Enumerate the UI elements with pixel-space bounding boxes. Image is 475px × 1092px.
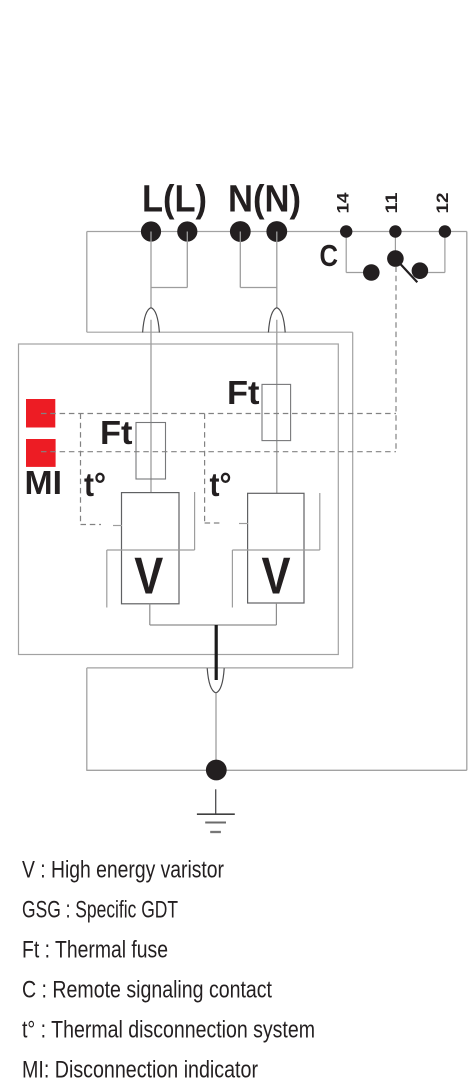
wire contact 14 horizontal <box>346 272 366 274</box>
terminal dot N2 <box>266 221 287 242</box>
svg-text:C: C <box>320 238 339 273</box>
terminal dot N1 <box>230 221 251 242</box>
GSG thick electrode line <box>215 625 218 680</box>
wire V L bottom drop <box>149 604 151 625</box>
svg-text:MI: Disconnection indicator: MI: Disconnection indicator <box>22 1057 258 1084</box>
dashed t-deg box N left edge <box>204 414 206 524</box>
node dot 14 <box>340 225 352 237</box>
svg-text:14: 14 <box>335 192 353 214</box>
enclosure box B top edge <box>87 331 353 333</box>
wire bypass N horizontal <box>232 549 319 551</box>
svg-text:t°: t° <box>210 466 232 503</box>
GDT arc electrode L <box>143 308 160 333</box>
wire L gap to fuse <box>150 320 152 493</box>
wire N pair join <box>240 287 276 289</box>
wire outer loop left stub upper <box>86 232 88 333</box>
svg-text:t° : Thermal disconnection sys: t° : Thermal disconnection system <box>22 1017 315 1044</box>
GSG arc electrode earth <box>207 668 224 693</box>
wire t-contact stub L <box>113 525 122 527</box>
fuse Ft L rect <box>136 423 166 480</box>
dashed link vertical to contact C <box>395 267 397 452</box>
wire contact 12 drop <box>444 232 446 273</box>
wire bypass L right vertical <box>194 492 196 550</box>
dashed t-deg box L bottom stub <box>81 524 102 526</box>
node dot 11 <box>389 225 401 237</box>
wire outer loop bottom (earth bus) <box>86 769 467 771</box>
svg-text:Ft: Ft <box>100 414 133 451</box>
svg-text:L(L): L(L) <box>142 179 207 221</box>
svg-text:Ft: Ft <box>227 374 260 411</box>
wire outer loop right side <box>466 232 468 771</box>
wire contact 11 drop <box>394 232 396 254</box>
ground bar 3 <box>210 831 221 833</box>
wire contact 12 horizontal <box>425 272 445 274</box>
contact pole dot 14 side <box>363 264 380 281</box>
svg-text:Ft : Thermal fuse: Ft : Thermal fuse <box>22 937 168 964</box>
svg-text:GSG : Specific GDT: GSG : Specific GDT <box>22 897 178 924</box>
wire outer loop left stub lower <box>86 668 88 770</box>
contact blade (switch lever) <box>395 259 417 283</box>
ground bar 1 <box>197 813 235 815</box>
dashed t-deg box N bottom stub <box>205 522 221 524</box>
svg-text:V : High energy varistor: V : High energy varistor <box>22 857 224 884</box>
MI indicator square 1 <box>26 399 55 428</box>
earth node dot <box>206 760 227 781</box>
svg-text:12: 12 <box>434 193 452 214</box>
wire N2 drop <box>276 232 278 308</box>
svg-text:N(N): N(N) <box>228 179 301 221</box>
fuse Ft N rect <box>262 384 291 440</box>
svg-text:V: V <box>262 548 291 606</box>
terminal dot L1 <box>141 221 161 241</box>
GDT arc electrode N <box>268 308 285 333</box>
wire dot to ground <box>215 789 217 814</box>
wire bypass N right vertical <box>319 493 321 550</box>
enclosure box B bottom edge <box>87 667 353 669</box>
varistor box V N <box>248 493 304 603</box>
contact pole dot 12 side <box>412 262 429 279</box>
svg-text:11: 11 <box>383 193 401 214</box>
svg-text:C : Remote signaling contact: C : Remote signaling contact <box>22 977 272 1004</box>
dashed link MI1 to C <box>41 413 396 415</box>
wire earth drop <box>215 693 217 760</box>
wire t-contact stub N <box>239 523 248 525</box>
node dot 12 <box>439 225 451 237</box>
wire V N bottom drop <box>275 603 277 625</box>
wire N1 drop <box>239 232 241 288</box>
ground bar 2 <box>205 822 226 824</box>
enclosure box B right edge <box>352 332 354 668</box>
wire L1 drop <box>150 232 152 308</box>
svg-text:t°: t° <box>84 466 106 503</box>
svg-text:MI: MI <box>25 465 63 502</box>
varistor box V L <box>122 493 180 604</box>
contact pole dot common 11 <box>387 250 404 267</box>
MI indicator square 2 <box>26 439 56 467</box>
wire L pair join <box>151 287 187 289</box>
wire bypass L left vertical <box>106 550 108 608</box>
wire contact 14 drop <box>345 232 347 273</box>
wire L2 drop <box>186 232 188 288</box>
wire bypass L horizontal <box>107 549 195 551</box>
dashed link MI2 to C <box>41 451 396 453</box>
wire bypass N left vertical <box>231 550 233 608</box>
enclosure box A <box>19 344 339 655</box>
dashed t-deg box L left edge <box>80 414 82 525</box>
wire N gap to fuse <box>276 320 278 494</box>
wire top bus L/N <box>87 231 467 233</box>
svg-text:V: V <box>134 548 163 606</box>
terminal dot L2 <box>177 221 197 241</box>
wire common join <box>150 624 277 626</box>
